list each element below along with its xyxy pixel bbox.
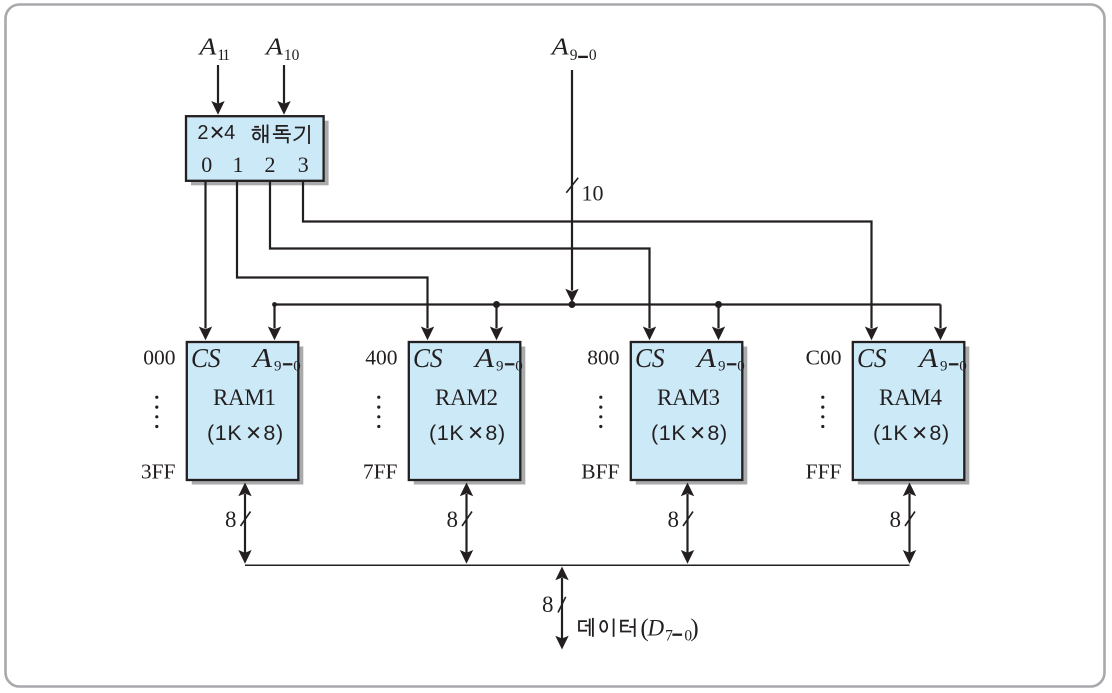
svg-text:11: 11	[217, 47, 229, 64]
bus width slash 8 RAM1	[241, 512, 251, 527]
svg-text:9: 9	[570, 47, 578, 64]
node junction RAM3 branch	[715, 301, 722, 308]
RAM1 (1Kx8) box	[187, 342, 298, 480]
svg-text:A: A	[251, 344, 272, 374]
svg-text:A: A	[197, 33, 216, 60]
RAM2 shadow	[414, 347, 526, 485]
node junction RAM2 branch	[493, 301, 500, 308]
svg-text:RAM3: RAM3	[657, 385, 720, 410]
svg-text:CS: CS	[413, 343, 443, 373]
svg-text:8: 8	[542, 592, 554, 617]
svg-text:(1K: (1K	[429, 421, 464, 445]
svg-text:CS: CS	[857, 343, 887, 373]
RAM1 ellipsis dots	[155, 396, 158, 429]
wire data bus RAM1 bidirectional	[238, 483, 251, 497]
wire data bus horizontal	[245, 564, 910, 566]
svg-text:7: 7	[665, 628, 673, 645]
wire input A11	[217, 65, 219, 104]
RAM4 (1Kx8) box	[853, 342, 965, 480]
node address bus left corner	[272, 302, 277, 307]
svg-text:): )	[690, 615, 698, 642]
bus width slash 8 RAM4	[905, 512, 915, 527]
svg-text:0: 0	[293, 359, 301, 375]
svg-text:9: 9	[940, 359, 948, 375]
svg-text:8: 8	[890, 507, 902, 532]
RAM3 shadow	[636, 347, 748, 485]
svg-text:9: 9	[274, 359, 282, 375]
svg-text:A: A	[550, 33, 569, 60]
bus width slash 8 external	[558, 597, 566, 613]
svg-text:10: 10	[284, 47, 300, 64]
svg-text:CS: CS	[635, 343, 665, 373]
svg-text:7FF: 7FF	[363, 459, 398, 483]
svg-text:8: 8	[447, 507, 459, 532]
wire branch to RAM2 A9-0	[495, 305, 497, 329]
svg-text:10: 10	[582, 181, 604, 206]
decoder U1 shadow	[191, 121, 329, 186]
label hangul 터	[621, 618, 635, 637]
svg-text:FFF: FFF	[806, 459, 842, 483]
svg-text:8): 8)	[485, 421, 505, 445]
svg-text:(1K: (1K	[207, 421, 242, 445]
wire address bus horizontal	[275, 303, 941, 305]
svg-text:D: D	[647, 616, 665, 641]
svg-text:C00: C00	[806, 346, 842, 370]
svg-text:A: A	[264, 33, 283, 60]
svg-text:RAM4: RAM4	[879, 385, 943, 410]
svg-text:8): 8)	[707, 421, 727, 445]
svg-text:3FF: 3FF	[141, 459, 176, 483]
wire decoder pin 3 to RAM4 CS	[303, 181, 872, 329]
wire external data bidirectional	[555, 567, 568, 581]
RAM3 ellipsis dots	[599, 396, 602, 429]
wire input A10	[283, 65, 285, 104]
node junction A9-0 arrival	[569, 301, 576, 308]
decoder title text hangul 기	[294, 125, 309, 144]
svg-text:RAM2: RAM2	[435, 385, 498, 410]
svg-text:1: 1	[233, 152, 244, 177]
svg-text:A: A	[473, 344, 494, 374]
RAM1 shadow	[192, 347, 303, 485]
svg-text:0: 0	[589, 47, 597, 64]
svg-text:RAM1: RAM1	[213, 385, 276, 410]
svg-text:2: 2	[197, 122, 208, 144]
wire data bus RAM4 bidirectional	[903, 483, 916, 497]
svg-text:BFF: BFF	[581, 459, 619, 483]
svg-text:A: A	[695, 344, 716, 374]
svg-text:0: 0	[201, 152, 212, 177]
svg-text:2: 2	[265, 152, 276, 177]
svg-text:0: 0	[959, 359, 967, 375]
bus width slash 10	[566, 178, 578, 193]
wire decoder pin 0 to RAM1 CS	[204, 181, 206, 329]
wire address bus A9-0 vertical	[571, 70, 573, 291]
wire branch to RAM1 A9-0	[273, 305, 275, 329]
RAM3 (1Kx8) box	[631, 342, 743, 480]
svg-text:9: 9	[718, 359, 726, 375]
wire data bus RAM3 bidirectional	[681, 483, 694, 497]
svg-text:A: A	[917, 344, 938, 374]
svg-text:8: 8	[668, 507, 680, 532]
wire decoder pin 2 to RAM3 CS	[270, 181, 650, 329]
RAM4 ellipsis dots	[821, 396, 824, 429]
decoder title text hangul 독	[273, 126, 291, 143]
svg-text:400: 400	[365, 346, 397, 370]
wire decoder pin 1 to RAM2 CS	[237, 181, 428, 329]
svg-text:8): 8)	[929, 421, 949, 445]
label hangul 데	[579, 618, 593, 637]
RAM2 (1Kx8) box	[409, 342, 521, 480]
svg-text:8: 8	[225, 507, 237, 532]
RAM4 shadow	[858, 347, 970, 485]
svg-text:9: 9	[496, 359, 504, 375]
bus width slash 8 RAM2	[462, 512, 472, 527]
decoder U1 (2x4 decoder) box	[186, 116, 324, 181]
svg-text:8): 8)	[263, 421, 283, 445]
wire branch to RAM3 A9-0	[717, 305, 719, 329]
decoder title text hangul 해	[252, 125, 268, 144]
wire data bus RAM2 bidirectional	[460, 483, 473, 497]
svg-text:0: 0	[737, 359, 745, 375]
svg-text:4: 4	[224, 122, 235, 144]
svg-text:000: 000	[143, 346, 175, 370]
svg-text:CS: CS	[191, 343, 221, 373]
RAM2 ellipsis dots	[377, 396, 380, 429]
svg-text:(1K: (1K	[651, 421, 686, 445]
bus width slash 8 RAM3	[683, 512, 693, 527]
label hangul 이	[600, 619, 613, 637]
svg-text:800: 800	[587, 346, 619, 370]
wire branch to RAM4 A9-0	[939, 305, 941, 329]
svg-text:3: 3	[298, 152, 309, 177]
svg-text:0: 0	[515, 359, 523, 375]
svg-text:(1K: (1K	[873, 421, 908, 445]
